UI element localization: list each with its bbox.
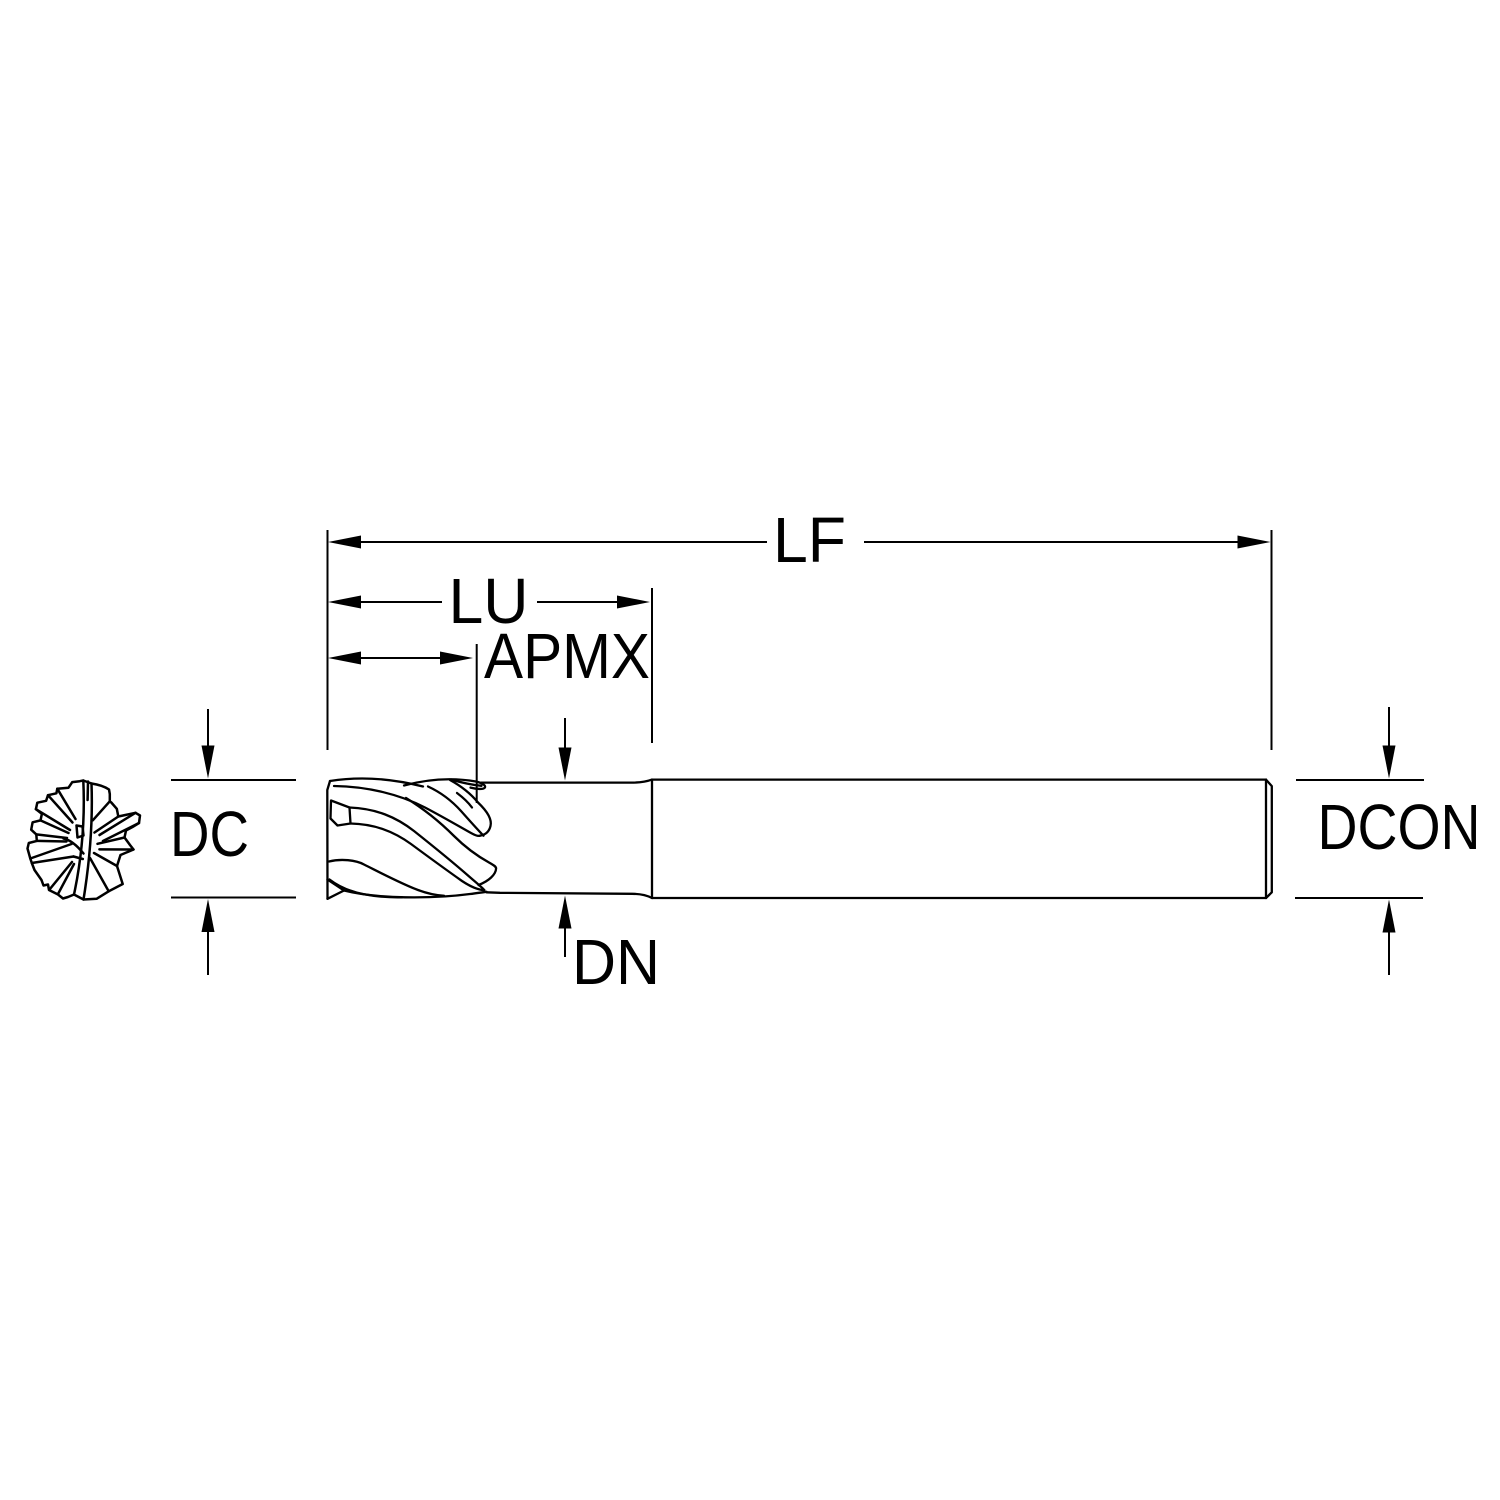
svg-text:DCON: DCON bbox=[1318, 791, 1481, 863]
svg-text:DC: DC bbox=[170, 798, 249, 870]
svg-text:LF: LF bbox=[773, 504, 846, 576]
svg-text:DN: DN bbox=[572, 926, 660, 998]
svg-text:APMX: APMX bbox=[484, 620, 650, 692]
